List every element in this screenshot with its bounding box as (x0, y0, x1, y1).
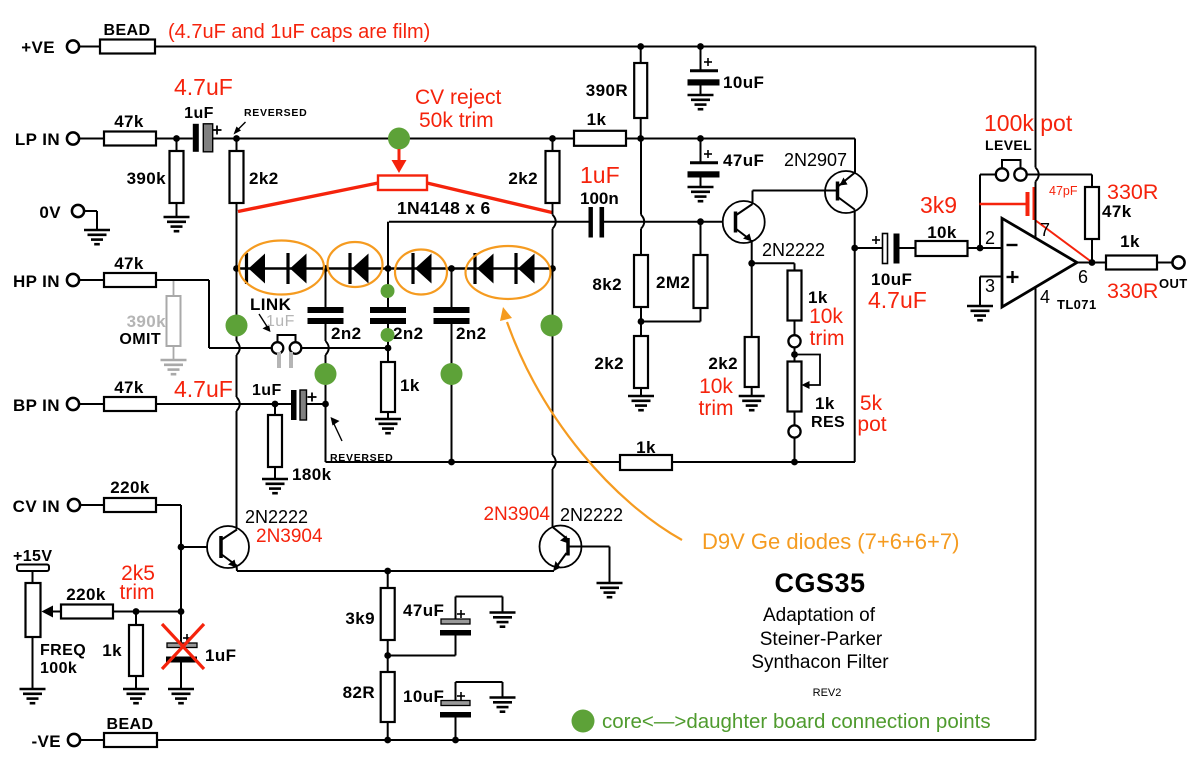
node cap3/ladder-bottom junction (448, 459, 455, 466)
svg-text:2N2222: 2N2222 (245, 507, 308, 527)
svg-text:BP IN: BP IN (13, 396, 60, 415)
wire op-amp pin3 to ground (980, 276, 1002, 278)
wire Q3 emitter down (751, 240, 753, 263)
resistor 2k2 (Q3 emitter) (751, 263, 753, 337)
svg-text:BEAD: BEAD (107, 716, 154, 733)
wire inverting node up to LEVEL pot (979, 175, 981, 249)
svg-text:LINK: LINK (250, 295, 292, 314)
node +VE/390R junction (637, 43, 644, 50)
svg-text:2n2: 2n2 (331, 324, 362, 343)
svg-text:100n: 100n (580, 189, 619, 208)
capacitor 2n2 (cap1) (325, 269, 327, 308)
terminal 0V (72, 205, 84, 217)
ground (47uF ladder top) (688, 187, 714, 201)
wire red trim left arm (238, 183, 378, 212)
svg-text:330R: 330R (1107, 279, 1158, 303)
node LP/390k junction (173, 135, 180, 142)
orange ellipse group 2 (6 diodes) (328, 242, 383, 287)
svg-text:(4.7uF and 1uF caps are film): (4.7uF and 1uF caps are film) (168, 21, 430, 43)
wire 1k to ladder-top rail (626, 138, 855, 140)
diode D6 (1N4148) (514, 253, 517, 284)
capacitor 2n2 (cap3) (451, 269, 453, 308)
node chain right end (549, 265, 556, 272)
svg-text:3: 3 (985, 276, 995, 296)
capacitor 1uF (LP, reversed electrolytic) (193, 124, 199, 152)
wire Q3 collector to Q4 base (752, 191, 754, 205)
wire ladder-bottom line right (672, 461, 855, 463)
resistor 10k (op-amp input) (900, 247, 916, 249)
wire diode chain (237, 267, 553, 269)
wire Q1 collector up to ladder left column (236, 529, 238, 531)
ground (390k) (164, 217, 190, 231)
node 100n/2M2 junction (697, 218, 704, 225)
node Q4 collector / output cap (851, 245, 858, 252)
node Q3 emitter junction (748, 260, 755, 267)
potentiometer FREQ 100k (26, 583, 41, 637)
svg-text:1uF: 1uF (184, 105, 214, 122)
wire cap2 bottom (387, 324, 389, 348)
svg-text:1k: 1k (636, 438, 656, 457)
capacitor 10uF (rail bypass) (455, 718, 457, 741)
node 82R/bottom rail (384, 737, 391, 744)
svg-text:3k9: 3k9 (345, 609, 375, 628)
green connection dot (CV reject node) (388, 128, 410, 150)
green dot (ladder right column) (541, 315, 563, 337)
transistor Q3 2N2222 (723, 201, 765, 243)
svg-text:180k: 180k (292, 465, 332, 484)
transistor Q1 2N2222/2N3904 (CV) (207, 526, 249, 568)
svg-text:47k: 47k (114, 378, 144, 397)
resistor 47k (LP input) (79, 138, 104, 140)
terminal -VE (68, 734, 80, 746)
svg-text:2: 2 (985, 228, 995, 248)
ferrite BEAD (-VE) (80, 739, 104, 741)
node emitter bus / 3k9 (384, 568, 391, 575)
green dot small (cap2 upper) (381, 284, 395, 298)
svg-text:1uF: 1uF (205, 646, 236, 665)
ground (op-amp pin3) (967, 306, 993, 320)
svg-text:10k: 10k (699, 375, 733, 398)
terminal HP IN (67, 274, 79, 286)
wire LP row (213, 138, 574, 140)
resistor 180k (BP) (274, 404, 276, 415)
wire -VE rail (157, 739, 1036, 741)
wire red trim right arm (427, 183, 552, 213)
svg-text:10k: 10k (809, 305, 843, 328)
svg-text:2k2: 2k2 (249, 169, 279, 188)
svg-text:4.7uF: 4.7uF (174, 376, 233, 402)
node op-amp output (1089, 259, 1096, 266)
svg-text:1k: 1k (102, 641, 122, 660)
node BP cap right junction (322, 401, 329, 408)
node +VE/10uF junction (697, 43, 704, 50)
svg-text:OUT: OUT (1159, 276, 1188, 291)
svg-text:2n2: 2n2 (393, 324, 424, 343)
op-amp U1 TL071 (1002, 218, 1077, 307)
svg-text:100k pot: 100k pot (984, 110, 1073, 136)
svg-text:CV IN: CV IN (13, 497, 60, 516)
svg-text:TL071: TL071 (1057, 297, 1097, 312)
node RES wiper junction (794, 347, 796, 361)
resistor 220k (CV input) (80, 504, 104, 506)
svg-text:+VE: +VE (21, 38, 55, 57)
svg-text:10uF: 10uF (723, 73, 764, 92)
svg-text:6: 6 (1078, 267, 1088, 287)
svg-text:0V: 0V (39, 203, 61, 222)
svg-text:REVERSED: REVERSED (244, 107, 307, 119)
resistor 82R (381, 672, 395, 722)
terminal CV IN (68, 499, 80, 511)
wire +VE rail (155, 46, 1036, 48)
orange ellipse group 1 (7 diodes) (239, 241, 324, 295)
svg-text:390k: 390k (127, 312, 167, 331)
node chain/cap2 (385, 265, 392, 272)
svg-text:330R: 330R (1107, 180, 1158, 204)
svg-text:2N2222: 2N2222 (762, 240, 825, 260)
svg-text:4: 4 (1040, 287, 1050, 307)
green dot small (cap2 lower) (381, 328, 395, 342)
capacitor 10uF (supply) (700, 47, 702, 70)
diode D2 (1N4148) (286, 253, 289, 284)
svg-text:core<—>daughter board connecti: core<—>daughter board connection points (602, 710, 991, 733)
node 3k9/82R junction (387, 640, 389, 672)
resistor 2M2 (700, 222, 702, 255)
node chain/cap1 (322, 265, 329, 272)
node 390R bottom junction (637, 135, 644, 142)
resistor 2k2 (right) (552, 139, 554, 152)
ground (10uF supply) (688, 95, 714, 109)
svg-text:Synthacon Filter: Synthacon Filter (751, 652, 889, 673)
capacitor 1uF deleted (red X) (180, 612, 182, 644)
node crossed-cap/trim row (178, 608, 185, 615)
wire op-amp pin2 (980, 247, 1002, 249)
resistor 2k2 (8k2 column) (634, 336, 648, 388)
svg-text:FREQ: FREQ (40, 642, 86, 659)
resistor 390k (LP) (176, 139, 178, 152)
resistor 1k (trim row) (135, 612, 137, 626)
wire BP row (156, 403, 291, 405)
pad (RES bottom) (794, 412, 796, 426)
svg-text:OMIT: OMIT (119, 331, 161, 348)
svg-text:RES: RES (811, 414, 845, 431)
node RES column junction (791, 459, 798, 466)
svg-text:390R: 390R (586, 81, 628, 100)
svg-text:4.7uF: 4.7uF (174, 74, 233, 100)
node op-amp inverting input (977, 245, 984, 252)
wire ladder-bottom line (326, 461, 621, 463)
diode D1 (1N4148) (245, 253, 248, 284)
ground (0V) (84, 230, 110, 244)
svg-text:Steiner-Parker: Steiner-Parker (760, 629, 883, 650)
svg-text:390k: 390k (127, 169, 167, 188)
svg-text:2n2: 2n2 (456, 324, 487, 343)
wire BP column down to ladder-bottom line (325, 404, 327, 462)
svg-text:CV reject: CV reject (415, 86, 502, 109)
svg-text:1k: 1k (815, 394, 835, 413)
svg-text:1k: 1k (1120, 232, 1140, 251)
ground (OMIT, grey) (161, 360, 187, 374)
capacitor 47pF (red) (980, 203, 1026, 205)
svg-text:trim: trim (810, 327, 845, 350)
svg-text:D9V Ge diodes (7+6+6+7): D9V Ge diodes (7+6+6+7) (702, 529, 959, 554)
node BP/180k junction (272, 401, 279, 408)
svg-text:8k2: 8k2 (592, 275, 622, 294)
svg-text:47k: 47k (114, 254, 144, 273)
svg-text:2N2907: 2N2907 (784, 150, 847, 170)
node HP injection (cap2 bottom) (385, 345, 392, 352)
wire ladder left column (2k2-left bottom to Q1 collector, hops over LINK and BP rows) (236, 269, 238, 342)
wire RES bottom to ladder-bottom line (794, 438, 796, 462)
terminal BP IN (67, 398, 79, 410)
orange arrow to diode groups (507, 322, 682, 540)
svg-text:50k trim: 50k trim (419, 109, 494, 132)
svg-text:10k: 10k (927, 223, 957, 242)
wire cap1 down (hop over LINK row) (325, 324, 327, 341)
ground (10uF bypass) (490, 698, 516, 712)
transistor Q4 2N2907 (PNP) (825, 171, 867, 213)
diode D5 (1N4148) (473, 253, 476, 284)
svg-text:-VE: -VE (31, 732, 61, 751)
wire trim row (113, 611, 181, 613)
svg-text:trim: trim (699, 397, 734, 420)
svg-text:1k: 1k (587, 110, 607, 129)
svg-text:4.7uF: 4.7uF (868, 287, 927, 313)
wire Q4 collector column to ladder-bottom line (854, 248, 856, 462)
resistor 1k (RES column) (752, 262, 795, 264)
wire pin4 down to -VE rail (1035, 287, 1037, 740)
node chain/cap3 (448, 265, 455, 272)
ground (47uF bypass) (490, 613, 516, 627)
wire ladder right column (chain to Q2, hop over ladder-bottom line) (552, 269, 554, 456)
svg-text:1uF: 1uF (252, 382, 282, 399)
terminal +VE (67, 40, 79, 52)
wire 47k to 1uF cap (156, 138, 193, 140)
wire cap3 down to ladder-bottom line (451, 324, 453, 462)
resistor 2k2 (left) (236, 139, 238, 152)
ground (crossed cap) (168, 689, 194, 703)
svg-text:82R: 82R (343, 683, 375, 702)
svg-text:47k: 47k (1102, 202, 1132, 221)
svg-text:2M2: 2M2 (656, 273, 690, 292)
svg-text:220k: 220k (110, 478, 150, 497)
svg-text:47k: 47k (114, 112, 144, 131)
resistor 47k (feedback) (1091, 175, 1093, 188)
pad (RES top) (794, 321, 796, 336)
ground (FREQ pot) (20, 689, 46, 703)
wire Q4 collector down (854, 210, 856, 249)
ground (Q2 base) (597, 583, 623, 597)
capacitor 2n2 (cap2) (387, 222, 389, 307)
svg-text:pot: pot (857, 413, 886, 436)
orange ellipse group 4 (7 diodes) (466, 246, 551, 299)
resistor 1k (output) (1106, 256, 1157, 270)
capacitor 47uF (bus bypass) (388, 655, 456, 657)
svg-text:1uF: 1uF (580, 162, 620, 188)
svg-text:2N2222: 2N2222 (560, 505, 623, 525)
wire +VE to bead (79, 46, 100, 48)
wire 0V to ground (84, 210, 97, 212)
legend green dot (572, 710, 595, 733)
svg-text:10uF: 10uF (403, 687, 444, 706)
node LP/2k2-right junction (549, 135, 556, 142)
svg-text:+15V: +15V (13, 548, 52, 565)
resistor 3k9 (emitter bus) (387, 571, 389, 588)
wire CV to Q1 base (156, 504, 181, 506)
svg-text:100k: 100k (40, 660, 77, 677)
orange ellipse group 3 (6 diodes) (395, 250, 447, 295)
svg-text:2k2: 2k2 (708, 354, 738, 373)
svg-text:47uF: 47uF (403, 601, 444, 620)
trimmer RES 1k (788, 362, 802, 412)
svg-text:CGS35: CGS35 (774, 568, 865, 598)
svg-text:LP IN: LP IN (15, 130, 60, 149)
green dot (ladder left column) (226, 315, 248, 337)
trimmer 50k CV reject (red) (398, 149, 401, 162)
svg-text:47uF: 47uF (723, 151, 764, 170)
svg-text:1uF: 1uF (266, 313, 295, 330)
wire 2k2-left to diode chain (236, 203, 238, 269)
resistor 1k (HP injection) (387, 348, 389, 362)
wire ladder-top rail down to Q4 emitter (854, 139, 856, 173)
node 1k/trim row (133, 608, 140, 615)
ground (2k2 mid) (739, 396, 765, 410)
wire Q1 emitter bus (237, 570, 554, 572)
ferrite BEAD (+VE) (100, 40, 155, 54)
svg-text:1N4148 x 6: 1N4148 x 6 (397, 198, 491, 218)
svg-text:2k2: 2k2 (508, 169, 538, 188)
svg-text:47pF: 47pF (1049, 184, 1078, 198)
resistor 8k2 (634, 255, 648, 307)
terminal OUT (1172, 256, 1184, 268)
jumper LINK terminals (272, 342, 284, 354)
svg-text:220k: 220k (66, 585, 106, 604)
green dot (cap3 column) (441, 363, 463, 385)
resistor 390R (640, 47, 642, 64)
node 8k2/2M2 junction (638, 318, 645, 325)
wire LINK to cap2 column (301, 347, 388, 349)
wire 390R column down (hop over 100n wire) (640, 139, 642, 215)
resistor 390k OMIT (grey) (173, 281, 175, 296)
svg-text:5k: 5k (860, 392, 883, 415)
wire +VE down to pin7 (hop over pot wire) (1035, 47, 1037, 168)
resistor 1k (ladder bottom) (620, 455, 672, 470)
svg-text:LEVEL: LEVEL (985, 137, 1032, 153)
green dot (cap1 column) (315, 363, 337, 385)
capacitor 47uF (ladder top) (700, 139, 702, 162)
diode D3 (1N4148) (348, 253, 351, 284)
resistor 1k (top mid) (574, 131, 626, 146)
svg-text:trim: trim (120, 581, 155, 604)
ground (1k trim row) (123, 689, 149, 703)
svg-text:Adaptation of: Adaptation of (763, 605, 876, 626)
svg-text:3k9: 3k9 (920, 192, 957, 218)
wire op-amp output (1077, 262, 1106, 264)
diode D4 (1N4148) (411, 253, 414, 284)
terminal LP IN (67, 132, 79, 144)
node 10uF/bottom rail (452, 737, 459, 744)
svg-text:2k2: 2k2 (594, 354, 624, 373)
resistor 47k (HP input) (79, 279, 104, 281)
svg-text:REV2: REV2 (813, 687, 842, 699)
wire 2k2-right to diode chain (hop over 100n wire) (552, 203, 554, 215)
node LP/2k2-left junction (233, 135, 240, 142)
svg-text:7: 7 (1040, 220, 1050, 240)
resistor 47k (BP input) (79, 403, 104, 405)
ground (1k mid) (375, 419, 401, 433)
svg-text:HP IN: HP IN (13, 272, 60, 291)
svg-text:BEAD: BEAD (104, 22, 151, 39)
wire HP to link row (156, 279, 209, 281)
svg-text:2N3904: 2N3904 (256, 526, 323, 547)
svg-text:1k: 1k (400, 376, 420, 395)
capacitor 10uF output (4.7uF) (855, 247, 883, 249)
ground (180k) (262, 479, 288, 493)
ground (2k2 8k2-column) (628, 396, 654, 410)
node chain left end (233, 265, 240, 272)
transistor Q2 2N3904/2N2222 (grounded base) (540, 526, 582, 568)
node 47uF junction (697, 135, 704, 142)
resistor 220k (2k5 trim feed) (61, 605, 113, 619)
svg-text:2N3904: 2N3904 (483, 504, 550, 525)
